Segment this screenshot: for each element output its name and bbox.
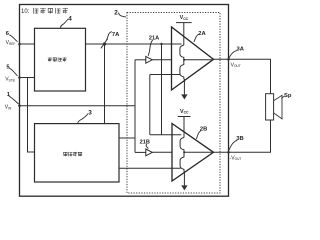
svg-text:VREF: VREF [6,40,16,46]
svg-text:3: 3 [88,110,92,117]
svg-text:VOUT: VOUT [231,62,241,68]
svg-text:-VOUT: -VOUT [230,155,242,161]
svg-text:Sp: Sp [284,93,292,99]
svg-text:VCC: VCC [180,109,189,115]
svg-text:2A: 2A [198,31,206,37]
svg-text:7A: 7A [112,32,120,38]
svg-text:2B: 2B [200,126,207,132]
svg-text:21A: 21A [149,36,159,42]
svg-text:10:: 10: [21,9,30,15]
svg-text:2: 2 [114,10,118,17]
svg-text:21B: 21B [140,139,150,145]
svg-text:VSTB: VSTB [5,77,15,83]
svg-text:4: 4 [68,16,72,23]
svg-text:VCC: VCC [180,15,189,21]
svg-text:5: 5 [6,65,10,71]
svg-text:3B: 3B [236,136,243,142]
svg-text:3A: 3A [237,46,245,52]
svg-text:6: 6 [6,31,10,37]
svg-text:VIN: VIN [5,105,12,111]
